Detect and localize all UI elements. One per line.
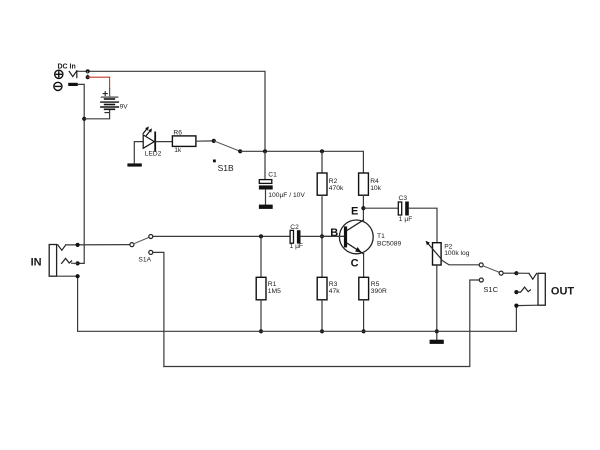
svg-text:1 µF: 1 µF <box>399 216 413 223</box>
node battery plus junction <box>86 75 90 79</box>
wire base <box>322 235 344 237</box>
wire P2 wiper to S1C <box>441 260 479 265</box>
node DC tip junction <box>86 69 90 73</box>
battery minus bar <box>68 83 78 86</box>
wire ground rail <box>78 330 517 332</box>
potentiometer P2 100k log <box>426 241 470 265</box>
capacitor C3 1uF <box>398 195 412 223</box>
wire red battery plus <box>88 77 110 88</box>
resistor R3 47k <box>317 277 327 300</box>
wire battery plus lower <box>109 89 111 97</box>
wire C2 to base <box>301 235 344 237</box>
wire R4 bottom to emitter node <box>362 195 364 220</box>
terminal minus symbol <box>54 82 62 90</box>
OUT tip contact <box>516 272 529 274</box>
wire input signal to C2 <box>153 235 290 237</box>
IN ring contact <box>62 258 72 263</box>
node battery minus junction <box>82 117 86 121</box>
svg-text:C1: C1 <box>268 172 277 179</box>
wire LED cathode to R6 <box>156 141 172 143</box>
node base <box>320 234 324 238</box>
connector DC jack tip contact <box>69 71 76 76</box>
svg-text:S1A: S1A <box>138 257 151 264</box>
svg-text:1 µF: 1 µF <box>290 243 304 250</box>
switch S1C <box>479 263 483 267</box>
wire IN tip to S1A <box>66 244 130 246</box>
switch S1B <box>212 139 216 143</box>
svg-text:C2: C2 <box>290 224 299 231</box>
wire tiny link between DC tip and battery plus <box>87 71 89 77</box>
svg-text:T1: T1 <box>377 233 385 240</box>
switch S1A <box>130 243 134 247</box>
wire P2 bottom to ground <box>436 265 438 340</box>
node R2 top <box>320 149 324 153</box>
svg-text:470k: 470k <box>329 185 344 192</box>
node R5 ground <box>362 329 366 333</box>
wire bypass bottom <box>164 280 479 367</box>
wire S1C to OUT tip <box>503 272 516 274</box>
svg-text:S1B: S1B <box>218 163 234 173</box>
wire LED anode to ground <box>134 142 143 164</box>
node IN sleeve <box>76 274 80 278</box>
wire collector to R5 <box>363 254 365 277</box>
switch S1C unused contact <box>479 278 483 282</box>
svg-text:1k: 1k <box>174 147 182 154</box>
node R1 ground <box>259 329 263 333</box>
switch S1B unused contact <box>213 160 216 163</box>
battery B1 9V <box>101 92 128 113</box>
node IN tip <box>76 243 80 247</box>
wire C3 to P2 <box>409 208 437 243</box>
svg-text:C: C <box>351 257 359 269</box>
svg-text:9V: 9V <box>120 103 129 110</box>
svg-text:IN: IN <box>31 256 42 268</box>
wire DC minus down to IN jack ring <box>78 84 84 263</box>
wire S1A unused to bypass <box>153 252 164 366</box>
node P2 ground <box>435 329 439 333</box>
capacitor C1 100uF/10V <box>259 172 306 209</box>
wire R2 bottom to base node to R3 to rail <box>321 195 323 277</box>
node emitter <box>361 206 365 210</box>
switch S1A lever <box>134 237 149 244</box>
connector OUT jack <box>538 273 545 305</box>
node R3 ground <box>320 329 324 333</box>
wire top rail from DC In tip to C1 column <box>77 71 265 151</box>
resistor R1 1M5 <box>260 236 262 277</box>
svg-text:B: B <box>330 227 338 239</box>
ground bar near P2 <box>430 340 444 344</box>
svg-text:100k log: 100k log <box>444 250 470 257</box>
node R1 top <box>259 234 263 238</box>
OUT ring contact <box>514 290 518 294</box>
svg-text:R6: R6 <box>173 129 182 136</box>
svg-text:E: E <box>351 206 358 218</box>
svg-text:S1C: S1C <box>483 285 498 294</box>
ground bar under LED <box>127 163 141 166</box>
svg-text:BC5089: BC5089 <box>377 240 401 247</box>
terminal plus symbol <box>55 70 63 78</box>
wire C1 <box>264 151 266 179</box>
node OUT tip <box>514 271 518 275</box>
IN sleeve wire <box>57 276 78 331</box>
wire battery bottom <box>84 110 109 119</box>
svg-text:47k: 47k <box>329 288 340 295</box>
svg-text:100µF / 10V: 100µF / 10V <box>268 192 305 199</box>
svg-text:390R: 390R <box>371 288 387 295</box>
switch S1A unused contact <box>149 250 153 254</box>
svg-text:OUT: OUT <box>551 286 575 298</box>
resistor R6 1k <box>172 136 196 147</box>
node IN ring <box>76 261 80 265</box>
svg-text:DC In: DC In <box>58 63 76 70</box>
OUT sleeve wire <box>516 305 538 331</box>
capacitor C2 1uF <box>290 224 304 250</box>
node C1 top <box>263 149 267 153</box>
wire R6 to S1B <box>196 140 214 142</box>
switch S1B lever <box>214 141 240 151</box>
switch S1C lever <box>483 266 499 273</box>
svg-text:C3: C3 <box>399 195 408 202</box>
svg-text:LED2: LED2 <box>145 150 162 157</box>
wire supply rail to R2 R4 <box>240 151 363 173</box>
svg-text:10k: 10k <box>370 185 381 192</box>
node OUT sleeve <box>514 304 518 308</box>
IN tip contact <box>58 245 66 250</box>
resistor R4 10k <box>359 173 369 195</box>
LED LED2 <box>143 126 155 150</box>
wire emitter node to C3 <box>363 207 398 209</box>
connector IN jack <box>49 245 56 277</box>
resistor R5 390R <box>359 277 369 300</box>
transistor T1 BC5089 <box>339 220 401 254</box>
svg-text:1M5: 1M5 <box>268 288 281 295</box>
resistor R2 470k <box>321 151 323 173</box>
